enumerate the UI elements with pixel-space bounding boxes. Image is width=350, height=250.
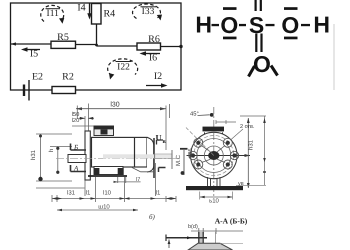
small dim arrows top-left <box>79 117 94 119</box>
svg-text:H: H <box>313 11 330 37</box>
double bond S up <box>255 0 257 11</box>
node junction R4 <box>95 44 98 47</box>
heavy leader line <box>166 237 207 239</box>
spokes <box>202 146 226 163</box>
svg-text:А: А <box>73 165 79 173</box>
bolt lugs 45deg <box>194 138 233 169</box>
bolt holes <box>191 141 237 167</box>
wire R6 to right edge <box>161 46 182 48</box>
hub <box>208 151 219 160</box>
lone pair O2 top <box>284 7 298 10</box>
ext line flange left <box>84 116 86 196</box>
svg-text:ь10: ь10 <box>209 198 219 205</box>
wire outer loop <box>11 3 182 90</box>
dim l30 line <box>76 108 166 110</box>
svg-text:R2: R2 <box>62 72 74 83</box>
svg-text:ш10: ш10 <box>98 204 110 211</box>
loop current I22 <box>108 59 138 80</box>
bottom dim labels row <box>67 190 161 197</box>
wire junction to R6 <box>97 45 138 47</box>
svg-text:O: O <box>281 12 299 38</box>
bond S-O2 <box>266 24 275 26</box>
section top dim line <box>191 230 243 232</box>
resistor R4 <box>92 4 102 25</box>
wire R5 to junction <box>76 44 97 46</box>
svg-text:I11: I11 <box>47 9 60 19</box>
svg-text:I4: I4 <box>77 3 85 14</box>
svg-text:b(d): b(d) <box>188 224 198 230</box>
faint divider line right <box>333 24 335 90</box>
svg-text:h: h <box>48 149 55 152</box>
svg-text:d25: d25 <box>188 148 194 157</box>
current arrow I6 <box>140 51 161 63</box>
front bottom dim b10 <box>200 196 233 198</box>
foot <box>94 167 123 175</box>
dim between views <box>183 150 185 175</box>
resistor R5 <box>51 41 76 48</box>
shaft right (gray) <box>155 154 172 159</box>
svg-text:H: H <box>195 11 212 37</box>
svg-text:А-А (Б-Б): А-А (Б-Б) <box>215 217 248 226</box>
bottom dim chain 1 <box>52 177 176 202</box>
bond O2-H2 <box>301 24 310 26</box>
small dim above box <box>216 121 236 123</box>
double bond S down <box>255 34 257 53</box>
svg-text:E2: E2 <box>32 72 43 83</box>
lone pair O1 top <box>223 7 237 10</box>
45 deg dashed diag <box>186 128 214 156</box>
svg-text:U: U <box>156 133 162 143</box>
motor body <box>92 137 148 167</box>
centerline axis <box>56 157 178 159</box>
battery E2 <box>24 80 29 101</box>
loop current I33 <box>132 4 162 20</box>
svg-text:I5: I5 <box>30 49 38 60</box>
front feet pads <box>186 186 243 190</box>
45 deg leader arrow <box>198 114 210 117</box>
svg-text:I22: I22 <box>117 63 130 73</box>
spigot circle <box>197 139 231 173</box>
foot web ticks <box>118 177 126 183</box>
side lug circles <box>189 151 197 159</box>
front feet legs <box>208 177 221 186</box>
svg-text:Б: Б <box>73 144 78 152</box>
lone pair O1 bottom <box>223 37 237 40</box>
centerline vertical <box>213 107 215 196</box>
shaft left stub <box>68 155 86 163</box>
wire nib left edge <box>11 42 17 45</box>
bottom dim chain 2 <box>57 209 138 211</box>
svg-text:М.С: М.С <box>175 154 182 166</box>
ext line top right <box>240 115 266 117</box>
dim l30 ext left <box>76 106 78 120</box>
current arrow I2 <box>146 71 168 88</box>
svg-text:R5: R5 <box>57 32 69 43</box>
svg-text:б): б) <box>149 213 156 221</box>
small dim line l7 <box>114 181 141 183</box>
ext line bottom right <box>236 185 266 187</box>
lone pair O3 left <box>249 66 255 77</box>
svg-text:I33: I33 <box>142 7 155 17</box>
svg-text:l20: l20 <box>72 117 80 124</box>
section marker A <box>71 165 87 172</box>
lone pair O3 right <box>271 66 278 76</box>
loop current I11 <box>41 5 65 23</box>
svg-text:O: O <box>253 51 271 77</box>
terminal box front (dark bar) <box>203 127 225 132</box>
svg-text:R6: R6 <box>148 34 160 45</box>
terminal box dark <box>94 126 114 136</box>
bond O1-S <box>239 24 246 26</box>
dim bracket right <box>159 168 166 173</box>
svg-text:O: O <box>220 12 238 38</box>
svg-text:l31: l31 <box>67 190 76 197</box>
current arrow I4 <box>77 3 91 20</box>
svg-text:ув: ув <box>238 181 244 187</box>
right vertical dim B <box>264 116 266 185</box>
section marker B <box>71 144 87 151</box>
rotor gray band <box>103 154 154 158</box>
svg-text:h31: h31 <box>30 149 37 160</box>
section trapezoid <box>188 243 233 250</box>
end bell joint line <box>134 138 136 167</box>
svg-text:l1: l1 <box>86 190 91 197</box>
svg-text:I6: I6 <box>149 53 157 64</box>
ext line x169 <box>169 104 171 118</box>
end face line <box>153 138 155 178</box>
svg-text:2 отв.: 2 отв. <box>240 124 255 130</box>
node junction right <box>179 45 182 48</box>
resistor R6 <box>137 43 161 50</box>
wire middle branch left <box>11 43 52 45</box>
right vertical dim A <box>247 118 249 188</box>
keyway slot <box>199 232 202 244</box>
centerline horizontal with dia arrows <box>187 155 251 157</box>
svg-text:l1: l1 <box>156 190 161 197</box>
current arrow I5 <box>21 47 40 59</box>
end bell bottom line <box>131 167 154 172</box>
left dim ext lines <box>36 126 94 188</box>
wire R4 down <box>96 24 98 46</box>
ground line <box>88 175 127 177</box>
end bell taper <box>147 137 154 172</box>
ext line x155.5 <box>155 163 157 196</box>
dim l30 ext right <box>165 106 167 151</box>
svg-text:h31: h31 <box>248 139 255 150</box>
ext line flange right <box>88 104 90 132</box>
bolt circle dashed <box>194 136 234 176</box>
resistor R2 <box>52 87 76 94</box>
bond H1-O1 <box>212 24 220 26</box>
dim d30 vertical <box>40 134 42 181</box>
lone pair O2 bottom <box>284 37 298 40</box>
left vertical dim <box>168 240 170 249</box>
svg-text:l7: l7 <box>136 177 140 183</box>
flange disc <box>85 131 90 180</box>
svg-text:I2: I2 <box>154 71 162 82</box>
inner circle <box>204 146 223 165</box>
dim h vertical <box>57 147 59 175</box>
svg-text:R4: R4 <box>104 9 116 20</box>
svg-text:l10: l10 <box>103 190 112 197</box>
svg-text:l30: l30 <box>110 101 119 109</box>
dim bracket above shaft <box>157 140 164 145</box>
ext right of trapezoid <box>220 242 243 244</box>
svg-text:45°: 45° <box>190 110 199 117</box>
flange outer circle <box>191 132 237 178</box>
